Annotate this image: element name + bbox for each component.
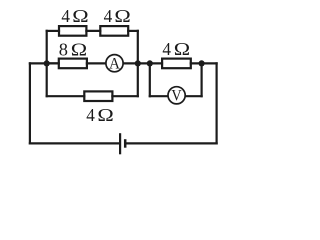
svg-text:A: A [109,56,120,73]
svg-text:4: 4 [61,6,70,26]
resistor 4Ω bottom body [84,91,112,101]
wire: right inner vertical through node B [137,31,139,96]
wire: outer bottom left (to battery) [30,142,119,144]
wire: bottom branch right segment [112,95,137,97]
node B junction dot [135,60,141,66]
label 8 Ω (middle resistor) [59,39,87,59]
wire: outer bottom right (from battery) [126,142,216,144]
wire: outer left vertical [29,63,31,143]
wire: voltmeter branch right horizontal [186,95,201,97]
resistor 4Ω right body [162,59,191,69]
wire: top branch middle segment between 4Ω resistors [86,30,100,32]
node C junction dot [147,60,153,66]
wire: node A to resistor 8Ω [47,62,59,64]
svg-text:Ω: Ω [114,6,130,26]
wire: voltmeter branch right vertical to node D [201,63,203,96]
label 4 Ω (right resistor) [162,39,190,59]
wire: bottom branch left segment [47,95,85,97]
wire: outer right vertical [216,63,218,143]
svg-text:8: 8 [59,39,68,59]
svg-text:Ω: Ω [97,105,113,125]
node A junction dot [44,60,50,66]
svg-text:4: 4 [162,39,171,59]
label 4 Ω (top-left resistor) [61,6,88,26]
battery BT1 short plate [124,139,127,148]
wire: left inner vertical (top branch / node A / bottom branch) [46,31,48,96]
wire: right 4Ω resistor to node D and right corner [191,62,217,64]
svg-text:4: 4 [104,6,113,26]
wire: voltmeter branch left vertical from node C [149,63,151,96]
wire: top branch left segment [47,30,59,32]
voltmeter U2 circle [168,87,185,104]
wire: ammeter to node B and node C [123,62,162,64]
battery BT1 long plate [119,133,121,154]
svg-text:V: V [171,87,182,104]
wire: middle branch left segment (left corner to node A) [30,62,58,64]
label 4 Ω (bottom resistor) [86,105,114,125]
label 4 Ω (top-right resistor) [104,6,131,26]
ammeter U1 circle [106,55,123,72]
wire: top branch right segment [128,30,138,32]
svg-text:Ω: Ω [72,6,88,26]
svg-text:Ω: Ω [174,39,190,59]
wire: resistor 8Ω to ammeter [87,62,106,64]
wire: voltmeter branch left horizontal [150,95,167,97]
node D junction dot [199,60,205,66]
svg-text:4: 4 [86,105,95,125]
resistor 4Ω top-right body [100,26,128,36]
svg-text:Ω: Ω [71,39,87,59]
resistor 4Ω top-left body [59,26,86,36]
resistor 8Ω body [59,59,87,69]
